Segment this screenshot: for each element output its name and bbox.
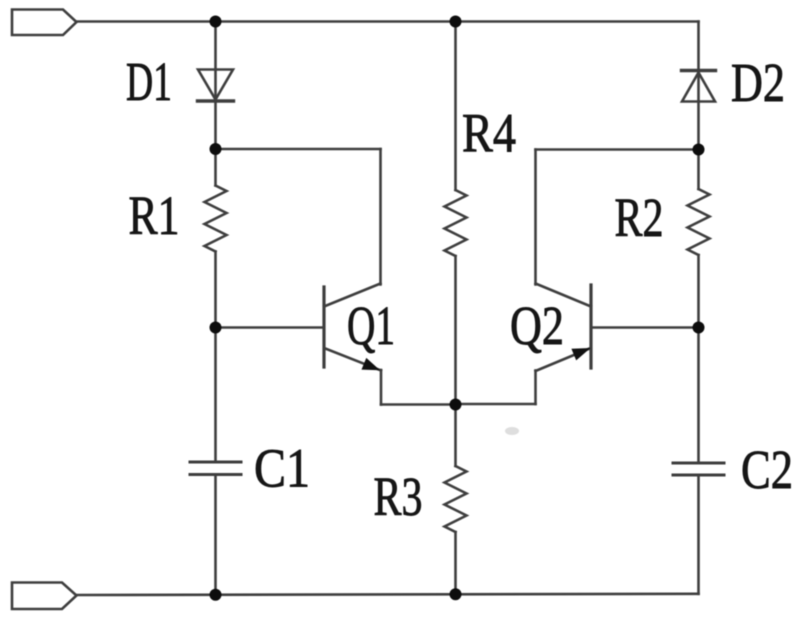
node bottom-left junction bbox=[210, 589, 222, 601]
wire right branch lower bbox=[697, 475, 700, 594]
wire right branch mid bbox=[697, 255, 700, 463]
resistor R4 bbox=[445, 190, 467, 256]
wire middle branch lower1 bbox=[454, 405, 457, 467]
wire left branch mid bbox=[214, 252, 217, 463]
faint scan smudge bbox=[505, 427, 519, 435]
node Q1 base bbox=[210, 322, 222, 334]
node top-left junction bbox=[210, 16, 222, 28]
svg-text:D2: D2 bbox=[731, 52, 785, 113]
node below D1 bbox=[210, 143, 222, 155]
resistor R2 bbox=[688, 189, 710, 255]
node top-middle junction bbox=[450, 16, 462, 28]
wire left branch upper bbox=[214, 22, 217, 186]
emitter arrow Q2 bbox=[571, 348, 590, 360]
node bottom-middle junction bbox=[450, 588, 462, 600]
wire middle branch mid bbox=[454, 256, 457, 405]
svg-text:R2: R2 bbox=[615, 187, 664, 248]
diode D1 bbox=[198, 70, 234, 102]
svg-text:Q2: Q2 bbox=[510, 295, 564, 356]
diode D2 bbox=[682, 71, 716, 102]
emitter arrow Q1 bbox=[362, 358, 381, 370]
wire middle branch upper bbox=[454, 22, 457, 191]
terminal bottom-left bbox=[12, 583, 77, 610]
svg-text:C2: C2 bbox=[741, 439, 793, 500]
capacitor C2 bbox=[673, 463, 724, 475]
svg-text:Q1: Q1 bbox=[347, 295, 395, 356]
svg-text:D1: D1 bbox=[126, 51, 172, 112]
node Q2 base bbox=[693, 322, 705, 334]
wire right branch upper bbox=[697, 22, 700, 190]
resistor R3 bbox=[445, 466, 467, 532]
transistor Q2 bbox=[456, 150, 699, 405]
transistor Q1 bbox=[216, 149, 456, 405]
wire middle branch lower2 bbox=[454, 532, 457, 595]
svg-text:C1: C1 bbox=[254, 438, 310, 499]
resistor R1 bbox=[205, 186, 227, 252]
terminal top-left bbox=[12, 10, 77, 36]
node below D2 bbox=[693, 144, 705, 156]
wire left branch lower bbox=[214, 475, 217, 596]
svg-text:R1: R1 bbox=[129, 185, 180, 246]
svg-text:R4: R4 bbox=[462, 103, 516, 164]
wire bottom rail bbox=[77, 594, 699, 595]
node emitter center bbox=[450, 399, 462, 411]
capacitor C1 bbox=[190, 462, 241, 475]
wire top rail bbox=[77, 20, 699, 23]
svg-text:R3: R3 bbox=[374, 466, 423, 527]
